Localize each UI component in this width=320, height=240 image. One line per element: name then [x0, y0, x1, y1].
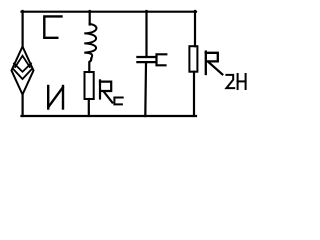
wire inductor branch top [89, 11, 91, 25]
label Rc: subscript c [114, 98, 122, 105]
label И (source node) [48, 86, 63, 109]
label R2н: subscript н [238, 74, 246, 89]
label Rc: letter R [100, 80, 112, 102]
wire left branch top [22, 11, 24, 47]
capacitor C top plate [137, 56, 155, 58]
wire capacitor branch top [145, 11, 147, 56]
current source И (dependent source rhombus) [12, 47, 34, 95]
capacitor C bottom plate [137, 61, 155, 63]
resistor R2н box [189, 46, 197, 71]
label R2н: letter R [206, 52, 223, 75]
current source inner chevron 1 [14, 64, 31, 72]
label R2н: subscript 2 [226, 75, 234, 88]
wire resistor R2н to bottom rail [193, 72, 195, 116]
label С (drain node) [44, 16, 61, 37]
wire coil to resistor [89, 59, 91, 73]
wire resistor Rc to bottom rail [88, 99, 90, 116]
resistor Rc box [85, 72, 94, 99]
current source inner chevron 2 [13, 69, 32, 79]
wire bottom rail [22, 115, 197, 117]
current source inner mark lambda [15, 56, 30, 67]
wire capacitor branch bottom [144, 63, 147, 116]
inductor L coil [84, 24, 96, 59]
wire top rail [22, 11, 197, 13]
wire left branch bottom [22, 95, 24, 117]
wire right branch top [194, 11, 196, 46]
label с (capacitor value) [157, 54, 167, 65]
